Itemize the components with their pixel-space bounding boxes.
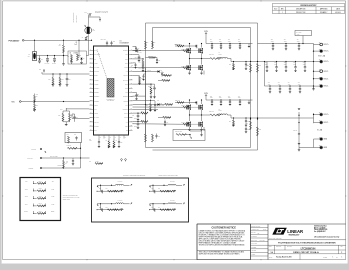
MOSFET Q2 top parallel [201,44,203,48]
svg-text:PGOOD: PGOOD [58,165,62,167]
ground input bank ch2 [248,100,250,103]
svg-text:TG1: TG1 [125,54,128,56]
svg-text:SENSE2-: SENSE2- [94,100,100,102]
svg-text:MODE: MODE [94,113,98,115]
svg-text:ECO: ECO [274,9,277,11]
resistor R5 loop lower [152,134,154,142]
svg-text:PGOOD: PGOOD [94,126,98,128]
svg-text:C9 470uF: C9 470uF [296,32,301,34]
file row [268,239,346,241]
svg-text:100uF: 100uF [265,64,268,66]
MOSFET Q4 top parallel [201,100,203,104]
svg-text:ILIM: ILIM [157,100,159,102]
capacitor C4 [47,56,49,59]
svg-text:TG2: TG2 [125,92,128,94]
svg-text:IC DES.: IC DES. [251,254,256,256]
capacitor C17 [73,116,76,119]
resistor R16 [133,75,138,77]
test point TP2 [43,70,45,72]
svg-text:100uF: 100uF [284,64,287,66]
gate resistor bottom ch1 [133,66,184,68]
svg-text:470uF: 470uF [288,83,291,85]
snubber cap ch1 [245,62,247,65]
svg-text:SENSE1-: SENSE1- [94,92,100,94]
svg-text:L5 0.56uH: L5 0.56uH [170,181,175,183]
svg-text:2.2uF: 2.2uF [228,97,231,99]
diode D2 [133,104,158,106]
svg-text:SENSE1+: SENSE1+ [94,88,100,90]
svg-text:CB1 0.1uF: CB1 0.1uF [175,44,180,46]
svg-text:INTVCC: INTVCC [147,70,151,72]
svg-text:100uF: 100uF [293,64,296,66]
svg-text:ITEMP: ITEMP [94,105,98,107]
wire PVIN rail ch1 [206,43,253,45]
svg-text:470uF: 470uF [298,83,301,85]
surge stopper block U2 [68,51,86,64]
MOSFET Q1 top [189,44,191,48]
snubber R C ch2 [233,118,235,120]
svg-text:PVIN: PVIN [204,31,208,33]
svg-text:0.56uH: 0.56uH [219,110,223,112]
svg-text:BOOST1: BOOST1 [123,50,128,52]
svg-text:RS: RS [258,233,260,235]
svg-text:RUN: RUN [94,50,97,52]
DCR block 3 [149,181,184,193]
svg-text:R58 20k: R58 20k [162,78,166,80]
resistor R21 [162,75,170,77]
resistor R19 remote sense top [257,64,259,73]
gate resistor bottom ch2 [133,123,184,125]
revision history table [273,3,345,13]
svg-text:SGND: SGND [94,75,97,77]
resistor R58 [162,80,170,82]
svg-text:SNS1+: SNS1+ [24,211,28,213]
svg-text:R56 100k: R56 100k [149,55,154,57]
IC U1 left pins [90,49,101,132]
wire EXTVCC [42,157,90,159]
svg-text:U1: U1 [120,40,122,42]
ground ITEMP [201,131,203,135]
snubber R C ch1 [233,62,235,64]
snubber box optional [65,133,82,143]
svg-text:SW1: SW1 [94,130,97,132]
svg-text:DIFFN: DIFFN [124,117,128,119]
svg-text:REVISION HISTORY: REVISION HISTORY [301,5,318,7]
svg-text:PGOOD: PGOOD [29,168,34,170]
svg-text:SNS2+: SNS2+ [51,211,55,213]
capacitor C19 [133,92,137,94]
svg-text:LTC3856EUH: LTC3856EUH [120,42,129,44]
svg-text:TP15: TP15 [51,204,54,206]
wire inductor out ch1 [228,59,232,62]
svg-text:TP8: TP8 [25,181,28,183]
wire ilim [133,99,156,101]
svg-text:TP10: TP10 [25,189,28,191]
svg-text:EXTVCC 4B2V: EXTVCC 4B2V [50,156,58,158]
MOSFET Q8 bottom [189,115,191,121]
svg-text:2.2uF: 2.2uF [210,41,213,43]
MOSFET Q3 top [189,100,191,104]
channel 1 power stage [0,0,1,1]
jumper row 4 [25,203,55,207]
capacitor C12 comp [142,66,145,69]
test point TP1 [89,14,91,16]
svg-text:100uF: 100uF [303,64,306,66]
svg-text:TP14: TP14 [25,204,28,206]
svg-text:VOUT-: VOUT- [324,78,329,80]
svg-text:2.2uF: 2.2uF [210,97,213,99]
svg-text:TECHNOLOGY: TECHNOLOGY [289,234,300,236]
IC U1 exposed pad [107,79,114,98]
VOUT2 bus [313,113,315,123]
arrow to pot [84,25,86,27]
svg-text:2.2uF: 2.2uF [238,97,241,99]
wire sense loop inner [146,28,251,148]
capacitor C33 [154,101,156,105]
diode D1 [133,71,158,73]
svg-text:E10: E10 [319,145,321,147]
svg-text:470uF: 470uF [268,83,271,85]
sense resistor RS1 [210,58,221,60]
svg-text:BG2: BG2 [125,84,128,86]
net flag PVIN ch2 [205,95,207,97]
svg-text:FREQ: FREQ [94,63,97,65]
svg-text:EXTVCC: EXTVCC [28,158,33,160]
capacitor C22 bypass [106,44,108,46]
svg-text:BOOST2: BOOST2 [123,96,128,98]
svg-text:INTVCC: INTVCC [94,121,98,123]
svg-text:VOUT-: VOUT- [324,86,329,88]
resistor R2 loop [145,41,147,49]
output rail top [258,43,314,45]
svg-text:DIFFP: DIFFP [124,113,128,115]
capacitor C30 ith2 [133,62,136,64]
svg-text:R59 10k: R59 10k [165,102,169,104]
svg-text:VIN: VIN [28,56,30,58]
boost wire ch2 [175,102,196,104]
svg-text:C5 1uF: C5 1uF [52,63,56,65]
svg-text:SENSE2+: SENSE2+ [94,96,100,98]
wire SENSE joins [145,112,146,114]
gate resistor R42 top [133,106,184,108]
resistor R54 [34,102,36,104]
wire gnd terms [299,147,314,149]
svg-text:ZVN: ZVN [93,30,96,32]
svg-text:SW1: SW1 [125,58,128,60]
svg-text:1M: 1M [36,96,38,98]
svg-text:R41 100k: R41 100k [67,145,72,147]
IC bottom pins [99,135,126,139]
svg-text:ISET: ISET [125,126,128,128]
resistor R36 [69,111,71,114]
svg-text:ITH: ITH [94,58,96,60]
capacitor C51 gnd [298,112,300,132]
svg-text:CB2 0.1uF: CB2 0.1uF [175,100,180,102]
svg-text:VOSNS+: VOSNS+ [94,79,99,81]
resistor R20 remote sense bottom [250,121,252,130]
resistor R59 [165,104,173,106]
svg-text:03-16-10: 03-16-10 [335,12,341,14]
wire inductor out ch2 [228,115,232,118]
svg-text:L6 0.56uH: L6 0.56uH [170,200,175,202]
svg-text:R50 10k NTC: R50 10k NTC [175,131,182,133]
resistor R18 remote sense top [250,64,252,73]
resistor R60 avp [163,117,171,119]
capacitor C41 [72,158,74,160]
svg-text:+ 35V: + 35V [296,34,299,36]
ground source ch1 [189,70,191,73]
terminal E2 VOUT+ [314,50,320,52]
terminal E7 VOUT2+ [314,114,320,116]
svg-text:OF: OF [336,256,338,258]
svg-text:SIZE: SIZE [269,246,272,248]
svg-text:R45 2.2: R45 2.2 [181,65,185,67]
ground C51 [298,143,301,144]
size fscm dwg row [268,245,346,259]
resistor R56 cluster [149,57,156,59]
svg-text:R64 0: R64 0 [39,203,42,205]
svg-text:TP13: TP13 [51,196,54,198]
vertical bus INTVCC right [145,68,147,134]
wire freq tie [146,83,152,85]
svg-text:R21 0.003: R21 0.003 [209,54,214,56]
output rail ch1 [231,61,314,63]
svg-text:L3 0.56uH: L3 0.56uH [118,181,123,183]
jumper row 2 [25,188,55,192]
svg-text:PVIN 48/250V: PVIN 48/250V [9,39,21,42]
svg-text:R61 0: R61 0 [39,181,42,183]
svg-text:R41 2.2: R41 2.2 [181,48,185,50]
approvals column [251,228,269,256]
svg-text:PVIN: PVIN [204,93,208,95]
DCR block 1 [97,181,132,193]
terminal E4 VOUT- [314,70,320,72]
capacitor C35 boost [161,72,163,74]
resistor R12 [77,54,79,61]
resistor R11 [71,55,73,62]
snubber cap ch2 [245,118,247,121]
wire diffout [133,108,159,110]
wire VOSNS [72,117,90,119]
net flag PVIN ch1 [205,33,207,35]
svg-text:U2: U2 [70,53,72,55]
svg-text:QFN-32 GND: QFN-32 GND [107,100,114,102]
svg-text:RUN: RUN [12,102,15,104]
svg-text:2.2uF: 2.2uF [228,41,231,43]
resistor R14 comp [133,58,144,60]
resistor R44 pullup [63,158,65,161]
wire sense loop outer [146,23,258,150]
IC U1 right pins [123,49,133,132]
capacitor C25 [118,139,120,142]
terminal E5 VOUT- [314,78,320,80]
svg-text:NC: NC [126,130,128,132]
resistor R31 [59,74,61,78]
svg-text:VOUT+: VOUT+ [324,114,329,116]
terminal E8 VOUT2- [314,122,320,124]
wire PVIN input rail [24,39,91,41]
svg-text:C23: C23 [113,41,115,43]
svg-text:R22 0.003: R22 0.003 [209,111,214,113]
wire EXTVCC vertical [80,143,82,159]
jumper row 1 [25,181,54,185]
option jumper box JP [20,178,61,221]
jumper row 5 [24,211,55,215]
svg-text:C22 4.7uF: C22 4.7uF [100,39,106,41]
capacitor C37 avp [164,120,166,122]
bulk capacitor C9 box [295,31,312,36]
svg-text:SENSE RESISTOR: SENSE RESISTOR [73,12,75,22]
svg-text:R65 0: R65 0 [39,211,42,213]
svg-text:VIN: VIN [126,71,128,73]
wire PVIN rail ch2 [206,99,253,101]
svg-text:R62 0: R62 0 [39,188,42,190]
svg-text:PRODUCTION: PRODUCTION [296,12,305,14]
svg-text:DIFFOUT: DIFFOUT [123,109,128,111]
capacitor C5 [54,56,56,59]
svg-text:CLKIN: CLKIN [96,161,99,163]
DCR block 4 [149,200,184,212]
svg-text:BG1: BG1 [125,63,128,65]
inductor L1 [218,57,228,58]
resistor R57 [150,104,152,111]
wire PGOOD [42,167,64,169]
MOSFET Q7 bottom parallel [201,59,203,65]
DCR block 2 [97,200,132,212]
svg-text:TP11: TP11 [51,189,54,191]
diode D5 [39,56,41,59]
sense resistor RS2 [210,114,221,116]
svg-text:PCB DES.: PCB DES. [251,247,257,249]
extra caps ch2 lower [245,127,247,129]
svg-text:ILIM: ILIM [94,109,96,111]
capacitor C11 [138,55,140,57]
svg-text:DEMO CIRCUIT 1516A-A: DEMO CIRCUIT 1516A-A [293,251,319,254]
svg-text:SHEET: SHEET [323,256,327,258]
output cap row3 rail [265,85,314,87]
resistor R22 remote sense bottom [257,127,259,136]
svg-text:CUSTOMER NOTICE: CUSTOMER NOTICE [211,226,236,229]
svg-text:R42 2.2: R42 2.2 [181,105,185,107]
IC U1 LTC3856EUH body [94,46,129,135]
terminal E3 VOUT+ [314,61,320,63]
test point TP5 [121,159,123,161]
wire RUN [21,101,89,103]
inductor L2 [218,114,228,115]
svg-text:PGOOD: PGOOD [123,100,127,102]
SW node wire ch2 [189,110,191,115]
wire ITH [133,54,140,56]
terminal E1 VOUT+ [314,44,320,46]
svg-text:0.56uH: 0.56uH [219,54,223,56]
resistor R53 [34,100,36,102]
SW node wire ch1 [189,53,191,58]
svg-text:REV: REV [281,9,284,11]
svg-text:100uF: 100uF [297,41,300,43]
svg-text:LINEAR: LINEAR [287,229,303,234]
wire FB divider [63,110,70,112]
DCR sensing box [92,178,189,222]
svg-text:FSCM NO.: FSCM NO. [276,246,282,248]
resistor R4 loop lower [145,134,147,142]
terminal E9 GND [314,138,320,140]
ITEMP box [173,130,205,141]
resistor R9 [63,40,65,45]
output rail ch2 [231,117,314,119]
sense network R24 C16 [133,112,142,114]
ground source ch2 [189,127,191,130]
capacitor C23 bypass [111,44,113,46]
capacitor C15 [66,74,68,79]
svg-text:0.1uF: 0.1uF [89,140,92,142]
svg-text:1uF: 1uF [75,44,77,46]
resistor R3 loop [152,41,154,49]
svg-text:R46 2.2: R46 2.2 [181,122,185,124]
capacitor C20 sense [155,135,157,138]
terminal E6 VOUT- [314,85,320,87]
svg-text:100k: 100k [90,13,93,15]
LTC logo [272,228,287,235]
resistor R30 [52,74,54,78]
svg-text:SW2: SW2 [125,88,128,90]
wire to gate pot [86,55,88,57]
sense network R25 C18 [133,121,142,123]
svg-text:POLYPHASE HIGH VOLT SYNCHRONOU: POLYPHASE HIGH VOLT SYNCHRONOUS BUCK CON… [278,242,336,245]
svg-text:DESCRIPTION: DESCRIPTION [296,9,305,11]
svg-text:VOSNS-: VOSNS- [94,84,99,86]
wire TRACK network [42,73,90,75]
svg-text:TP9: TP9 [52,181,55,183]
svg-text:100uF: 100uF [274,64,277,66]
svg-text:INTVCC: INTVCC [123,75,127,77]
svg-text:C51 1uF: C51 1uF [293,130,297,132]
svg-text:CLKOUT: CLKOUT [94,71,99,73]
svg-text:VOUT+: VOUT+ [324,61,329,63]
output bus vertical [313,44,315,89]
svg-text:REV: REV [341,246,344,248]
svg-text:MODE: MODE [136,94,139,96]
test point TP6 [125,159,127,161]
svg-text:DIFFP: DIFFP [134,118,137,120]
svg-text:L4 0.56uH: L4 0.56uH [118,200,123,202]
svg-text:2.2uF: 2.2uF [238,41,241,43]
terminal E10 GND [314,147,320,149]
svg-text:VOUT-: VOUT- [324,122,329,124]
svg-text:EXTVCC: EXTVCC [123,79,128,81]
svg-text:DIFFN: DIFFN [134,126,137,128]
title block outline [197,224,346,260]
ground output bus [313,86,315,89]
wire jack output [36,55,68,57]
MOSFET Q9 bottom parallel [201,115,203,121]
svg-text:R60 49.9k: R60 49.9k [163,115,168,117]
svg-text:2.2uF: 2.2uF [219,97,222,99]
capacitor C34 [144,73,146,75]
svg-text:470uF: 470uF [278,83,281,85]
svg-text:C4 0.1uF: C4 0.1uF [45,63,50,65]
svg-text:LTC3856EUH: LTC3856EUH [301,248,316,251]
svg-text:EXTVIN: EXTVIN [32,149,37,151]
svg-text:VOUT-: VOUT- [324,71,329,73]
capacitor C36 track [133,45,137,47]
svg-text:CHECKED: CHECKED [251,236,257,238]
svg-text:DWG NO.: DWG NO. [287,246,293,248]
svg-text:2.2uF: 2.2uF [219,41,222,43]
gate resistor R41 top [133,50,184,52]
customer notice box [197,224,251,260]
boost wire ch1 [175,45,196,47]
svg-text:R63 0: R63 0 [39,196,42,198]
